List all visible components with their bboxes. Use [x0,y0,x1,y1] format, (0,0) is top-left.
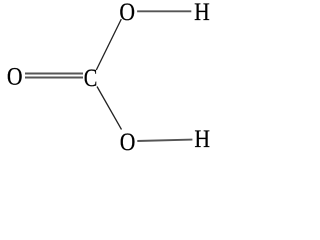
bond C-O (to top hydroxyl) [96,19,121,70]
svg-text:O: O [120,129,136,157]
svg-text:C: C [84,63,98,92]
bond O-H (top) [137,10,191,12]
svg-text:O: O [119,0,135,27]
svg-text:H: H [194,0,210,27]
bond C-O (to bottom hydroxyl) [97,87,122,130]
svg-text:O: O [7,63,23,91]
svg-text:H: H [194,126,210,154]
double bond O=C [25,74,83,78]
bond O-H (bottom) [137,140,192,141]
